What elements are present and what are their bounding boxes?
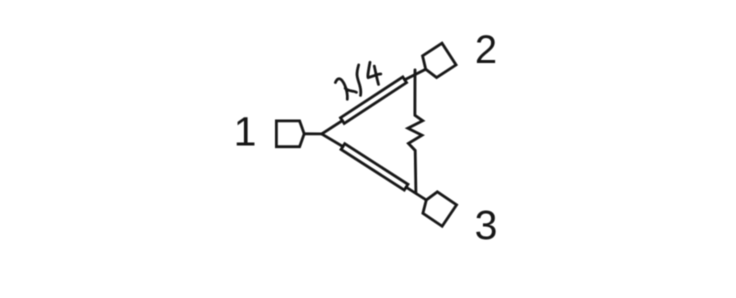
label lambda/4 — [335, 62, 380, 99]
port P2 symbol — [419, 43, 456, 80]
wire node V to TL1 — [322, 121, 343, 134]
wire node V to TL2 — [322, 134, 343, 147]
resistor R1 — [408, 70, 423, 193]
slash — [357, 65, 361, 96]
transmission line TL2 — [341, 144, 408, 190]
wire TL1 to port2 tip — [405, 69, 426, 79]
svg-text:1: 1 — [234, 109, 257, 155]
lambda glyph — [335, 79, 347, 100]
transmission line TL1 (lambda/4) — [340, 77, 406, 124]
digit 4 — [368, 62, 370, 77]
port P1 symbol — [276, 121, 304, 147]
svg-text:3: 3 — [475, 202, 498, 248]
port P3 symbol — [419, 189, 456, 226]
svg-text:2: 2 — [475, 28, 497, 72]
wire port1 to node V — [304, 132, 322, 135]
wire TL2 to port3 tip — [407, 188, 427, 201]
